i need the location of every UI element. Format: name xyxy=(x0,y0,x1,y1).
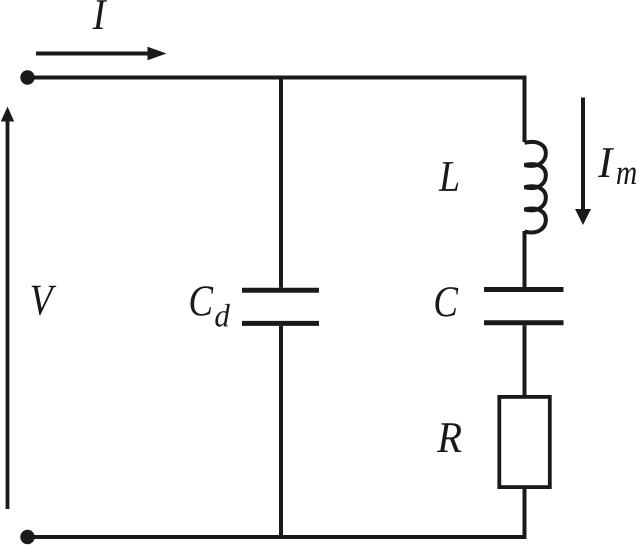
label Cd xyxy=(191,286,230,326)
arrow current I (top) xyxy=(36,47,167,60)
wire right branch bottom xyxy=(523,488,527,540)
wire top horizontal xyxy=(28,76,527,80)
resistor R xyxy=(499,397,550,487)
label R xyxy=(437,423,461,452)
node top-left terminal dot xyxy=(20,70,34,84)
label L xyxy=(439,162,459,191)
label C xyxy=(435,287,458,317)
label I xyxy=(92,0,106,29)
wire middle branch upper xyxy=(279,78,283,288)
wire middle branch lower xyxy=(279,326,283,537)
label Im xyxy=(598,148,636,184)
capacitor Cd xyxy=(242,290,319,323)
wire right branch between C and R xyxy=(523,325,527,396)
wire bottom horizontal xyxy=(28,535,527,539)
label V xyxy=(32,286,57,315)
wire right branch between L and C xyxy=(523,231,527,287)
inductor L xyxy=(525,142,546,233)
node bottom-left terminal dot xyxy=(20,530,34,544)
arrow current Im (right, pointing down) xyxy=(575,98,591,226)
capacitor C xyxy=(484,290,564,323)
arrow voltage V (left, pointing up) xyxy=(1,107,14,510)
wire right branch top xyxy=(523,76,527,143)
